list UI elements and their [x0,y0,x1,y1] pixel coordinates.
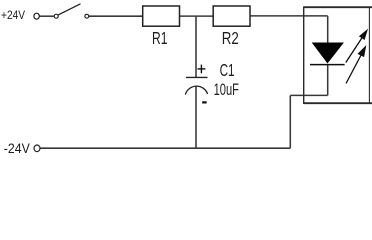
svg-text:R1: R1 [152,29,167,49]
svg-text:R2: R2 [222,29,239,48]
svg-text:+24V: +24V [1,9,26,22]
svg-text:10uF: 10uF [214,80,240,99]
svg-text:-24V: -24V [4,140,30,156]
svg-text:C1: C1 [220,61,235,81]
